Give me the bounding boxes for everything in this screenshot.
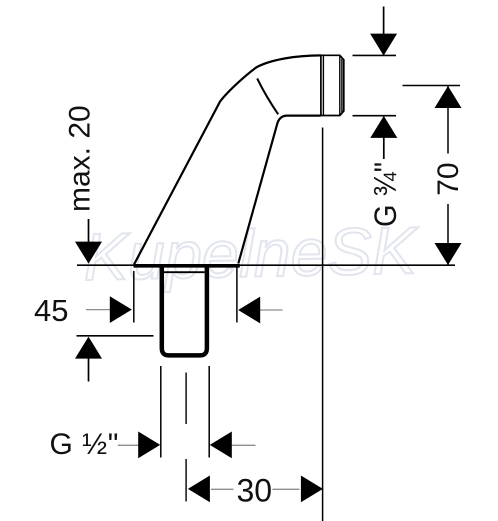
svg-text:30: 30 xyxy=(237,473,273,509)
svg-text:max. 20: max. 20 xyxy=(64,105,97,212)
svg-text:70: 70 xyxy=(432,162,465,195)
svg-text:G ¾": G ¾" xyxy=(367,162,403,227)
svg-text:45: 45 xyxy=(34,293,68,328)
svg-text:G ½": G ½" xyxy=(50,428,119,461)
